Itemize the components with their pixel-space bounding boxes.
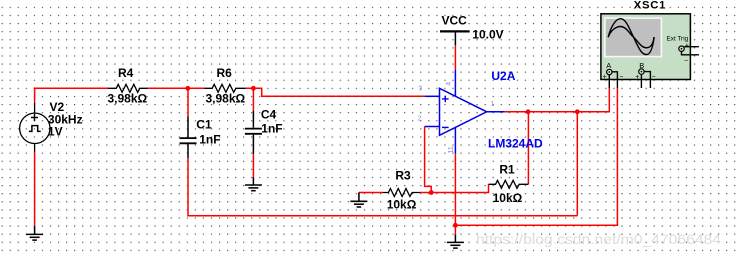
resistor R1 xyxy=(489,180,529,188)
svg-text:Ext Trig: Ext Trig xyxy=(667,35,689,42)
junction R1/output xyxy=(526,109,531,114)
wire V2 bottom to ground xyxy=(34,152,36,226)
svg-text:−: − xyxy=(652,74,656,81)
wire op-amp pin 2 to R3/R1 junction xyxy=(425,127,432,193)
svg-text:2: 2 xyxy=(418,116,422,123)
wire op-amp output to scope A xyxy=(505,88,610,112)
wire op-amp pin 11 to ground xyxy=(454,154,456,235)
wire ground to R3 xyxy=(359,192,383,194)
svg-text:R3: R3 xyxy=(395,169,411,183)
svg-text:1nF: 1nF xyxy=(261,121,282,135)
svg-text:3: 3 xyxy=(418,86,422,93)
svg-text:U2A: U2A xyxy=(491,69,515,83)
op-amp U2A xyxy=(425,70,505,154)
svg-text:+: + xyxy=(635,74,639,81)
wire R1 right to output node xyxy=(527,112,529,185)
wire C4 bottom to ground xyxy=(252,154,254,178)
svg-text:−: − xyxy=(684,58,688,65)
wire R3 to R1 xyxy=(420,184,488,192)
junction R6/C4 (node B) xyxy=(251,86,256,91)
wire V2 to R4 xyxy=(34,87,108,89)
scope A terminal stubs xyxy=(609,72,617,88)
svg-text:1V: 1V xyxy=(48,125,63,139)
wire C1 bottom to feedback bus xyxy=(188,158,577,215)
svg-text:11: 11 xyxy=(448,146,455,153)
svg-text:LM324AD: LM324AD xyxy=(488,137,543,151)
svg-text:VCC: VCC xyxy=(442,14,468,28)
ground at op-amp pin 11 xyxy=(447,234,464,248)
svg-text:R6: R6 xyxy=(217,66,233,80)
wire node A to C1 xyxy=(187,88,189,116)
capacitor C1 xyxy=(180,116,197,158)
svg-text:−: − xyxy=(619,74,623,81)
junction R4/C1 (node A) xyxy=(185,86,190,91)
wire scope A minus down to ground bus xyxy=(455,88,617,225)
svg-text:10.0V: 10.0V xyxy=(472,27,503,41)
svg-text:4: 4 xyxy=(446,82,453,86)
source V2 xyxy=(20,103,50,152)
scope B terminal stubs xyxy=(641,72,650,88)
resistor R4 xyxy=(108,84,148,92)
svg-text:1nF: 1nF xyxy=(199,132,220,146)
power VCC xyxy=(440,31,470,45)
svg-text:https://blog.csdn.net/m0_47066: https://blog.csdn.net/m0_47066484 xyxy=(476,232,722,247)
terminal Ext Trig xyxy=(679,46,684,51)
wire R4 to R6 xyxy=(148,87,205,89)
svg-text:R1: R1 xyxy=(499,162,515,176)
svg-text:10kΩ: 10kΩ xyxy=(493,191,523,205)
resistor R6 xyxy=(204,84,246,92)
svg-text:C1: C1 xyxy=(196,118,212,132)
junction ground bus xyxy=(453,223,458,228)
scope Ext Trig stubs xyxy=(682,47,700,55)
junction R3/R1/pin2 xyxy=(429,190,434,195)
ground left of R3 xyxy=(350,193,367,208)
oscilloscope sine trace xyxy=(608,19,654,55)
oscilloscope screen xyxy=(605,18,662,57)
resistor R3 xyxy=(382,189,420,197)
svg-text:+: + xyxy=(603,74,607,81)
svg-text:10kΩ: 10kΩ xyxy=(387,198,417,212)
ground under V2 xyxy=(26,226,43,240)
svg-text:XSC1: XSC1 xyxy=(634,0,666,11)
wire VCC to op-amp pin 4 xyxy=(454,45,456,70)
wire output node down to feedback bus xyxy=(576,112,578,216)
terminal A xyxy=(607,69,612,74)
svg-text:R4: R4 xyxy=(118,66,134,80)
svg-text:+: + xyxy=(685,42,689,49)
terminal B xyxy=(639,69,644,74)
wire R6 to op-amp pin 3 xyxy=(246,88,425,96)
oscilloscope XSC1 body xyxy=(601,14,691,80)
wire node B to C4 xyxy=(252,88,254,110)
wire V2 top vertical xyxy=(34,87,36,103)
ground under C4 xyxy=(245,177,262,191)
svg-text:3,98kΩ: 3,98kΩ xyxy=(206,92,246,106)
capacitor C4 xyxy=(245,111,262,154)
svg-text:C4: C4 xyxy=(261,108,277,122)
svg-text:1: 1 xyxy=(491,101,495,108)
svg-text:3,98kΩ: 3,98kΩ xyxy=(108,92,148,106)
junction feedback/output xyxy=(575,109,580,114)
